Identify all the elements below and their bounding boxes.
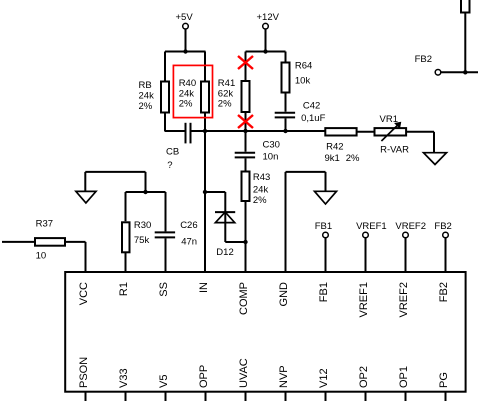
svg-text:PG: PG	[438, 372, 450, 388]
svg-text:VREF1: VREF1	[356, 221, 387, 232]
svg-text:V33: V33	[118, 368, 130, 388]
svg-text:OP1: OP1	[398, 366, 410, 388]
svg-text:R-VAR: R-VAR	[380, 145, 409, 156]
svg-text:COMP: COMP	[238, 282, 250, 315]
svg-text:2%: 2%	[179, 99, 193, 110]
svg-text:RB: RB	[139, 80, 152, 91]
svg-text:R37: R37	[36, 219, 53, 230]
svg-text:C30: C30	[263, 139, 280, 150]
svg-text:SS: SS	[158, 282, 170, 297]
svg-text:0,1uF: 0,1uF	[301, 113, 325, 124]
svg-text:OPP: OPP	[198, 365, 210, 388]
svg-text:+5V: +5V	[176, 12, 194, 23]
svg-text:R64: R64	[295, 61, 312, 72]
svg-text:VREF2: VREF2	[395, 221, 426, 232]
svg-text:VR1: VR1	[380, 114, 398, 125]
svg-text:?: ?	[167, 160, 172, 171]
svg-text:R43: R43	[253, 172, 270, 183]
svg-text:V5: V5	[158, 375, 170, 388]
svg-text:2%: 2%	[253, 195, 267, 206]
svg-text:C26: C26	[180, 220, 197, 231]
svg-text:D12: D12	[216, 247, 233, 258]
svg-text:FB1: FB1	[315, 221, 332, 232]
svg-text:2%: 2%	[218, 99, 232, 110]
svg-text:CB: CB	[166, 146, 179, 157]
svg-text:FB1: FB1	[318, 282, 330, 302]
svg-text:R1: R1	[118, 282, 130, 296]
svg-text:75k: 75k	[134, 235, 150, 246]
svg-text:24k: 24k	[253, 184, 269, 195]
svg-text:VCC: VCC	[78, 282, 90, 305]
svg-text:V12: V12	[318, 368, 330, 388]
svg-text:VREF2: VREF2	[398, 282, 410, 317]
svg-text:+12V: +12V	[257, 12, 280, 23]
svg-text:9k1: 9k1	[325, 153, 340, 164]
svg-text:NVP: NVP	[278, 365, 290, 388]
svg-text:R42: R42	[326, 142, 343, 153]
svg-text:C42: C42	[303, 101, 320, 112]
svg-text:FB2: FB2	[415, 54, 432, 65]
svg-text:10n: 10n	[263, 152, 279, 163]
svg-text:FB2: FB2	[434, 221, 451, 232]
svg-text:10k: 10k	[295, 76, 311, 87]
svg-text:R30: R30	[134, 220, 151, 231]
svg-text:24k: 24k	[139, 90, 155, 101]
svg-text:GND: GND	[278, 282, 290, 307]
svg-text:IN: IN	[198, 282, 210, 293]
svg-text:10: 10	[36, 250, 47, 261]
svg-text:2%: 2%	[346, 153, 360, 164]
svg-text:47n: 47n	[181, 237, 197, 248]
svg-text:VREF1: VREF1	[358, 282, 370, 317]
svg-text:2%: 2%	[139, 101, 153, 112]
svg-text:FB2: FB2	[438, 282, 450, 302]
svg-text:PSON: PSON	[78, 357, 90, 388]
svg-text:OP2: OP2	[358, 366, 370, 388]
svg-text:UVAC: UVAC	[238, 358, 250, 388]
